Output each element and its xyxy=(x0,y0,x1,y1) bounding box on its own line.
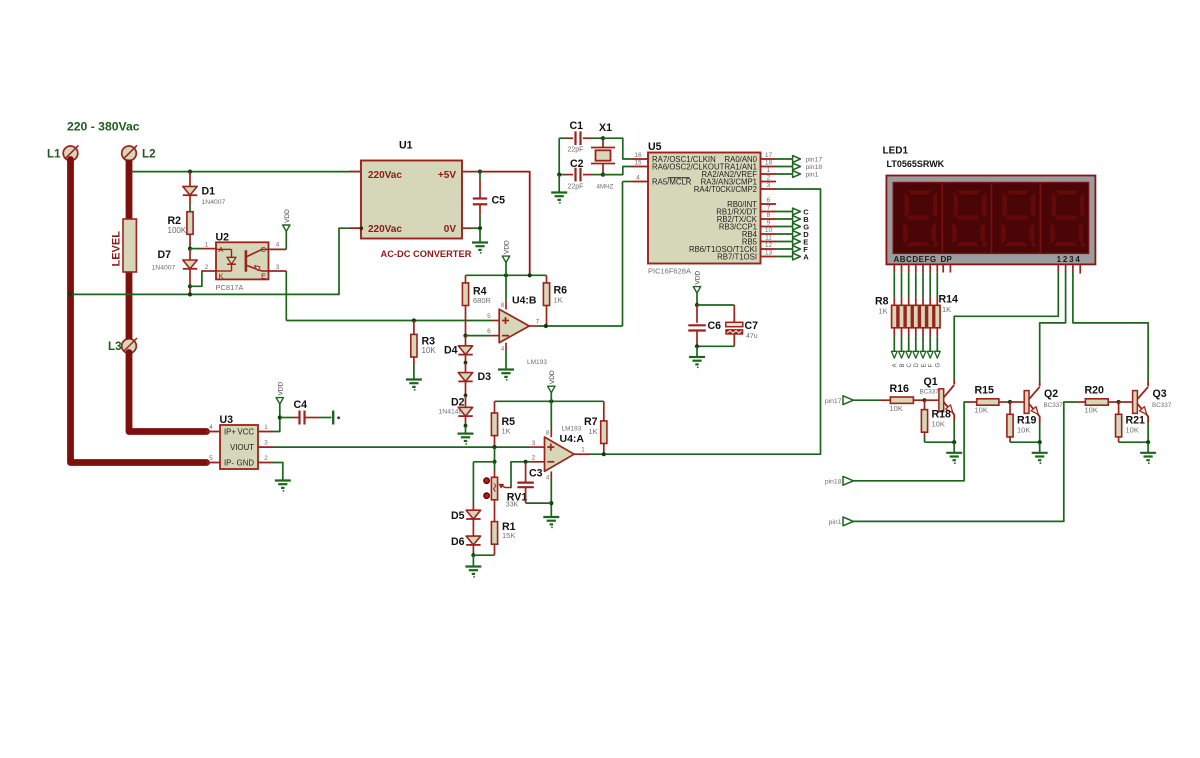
diode D1 xyxy=(189,172,191,187)
ground Q2 xyxy=(1039,442,1041,453)
converter U1 xyxy=(361,161,462,239)
node D1 top xyxy=(188,170,192,174)
svg-text:4: 4 xyxy=(209,424,213,431)
U5 pin 1 RA2/AN2/VREF xyxy=(761,173,777,175)
U2 internal phototransistor xyxy=(245,250,248,272)
svg-text:LM193: LM193 xyxy=(527,359,547,366)
svg-text:VDD: VDD xyxy=(695,270,702,284)
ground Q1 xyxy=(953,442,955,453)
wire pin17 to R16 xyxy=(853,399,880,401)
thick wire L1 bus xyxy=(71,160,207,463)
svg-text:pin18: pin18 xyxy=(806,164,823,171)
svg-text:LM193: LM193 xyxy=(562,425,582,432)
wire U4:B output to MCLR xyxy=(529,325,538,327)
svg-text:U2: U2 xyxy=(216,232,230,244)
capacitor C7 electrolytic xyxy=(733,305,735,322)
svg-text:A: A xyxy=(803,252,809,261)
svg-text:2: 2 xyxy=(767,175,771,182)
U5 pin 16 RA7/OSC1/CLKIN xyxy=(632,158,648,160)
wire pin18 to R15 xyxy=(853,402,968,481)
svg-text:RA4/T0CKI/CMP2: RA4/T0CKI/CMP2 xyxy=(694,185,757,194)
svg-text:F: F xyxy=(929,364,935,368)
tag segment E xyxy=(776,241,793,243)
svg-text:AC-DC CONVERTER: AC-DC CONVERTER xyxy=(381,249,472,259)
wire minus input to wiper xyxy=(511,462,529,488)
node Q2 emitter xyxy=(1038,440,1042,444)
node X1 top xyxy=(601,136,605,140)
LED segment pin G wire xyxy=(936,265,938,273)
svg-text:D5: D5 xyxy=(451,510,465,522)
svg-text:1K: 1K xyxy=(502,427,511,436)
LED segment pin D wire xyxy=(915,265,917,273)
svg-text:10K: 10K xyxy=(1085,405,1098,414)
terminal L1 xyxy=(63,146,78,161)
svg-text:pin1: pin1 xyxy=(806,172,819,179)
svg-text:4: 4 xyxy=(276,242,280,249)
wire +5V feed to VDD rail xyxy=(480,172,530,276)
node C6 bottom xyxy=(695,344,699,348)
node D6 R1 xyxy=(471,553,475,557)
svg-text:12: 12 xyxy=(765,242,773,249)
svg-text:K: K xyxy=(219,271,224,280)
svg-text:22pF: 22pF xyxy=(568,146,584,153)
resistor network R8-R14 xyxy=(891,305,941,329)
svg-text:+5V: +5V xyxy=(438,170,456,181)
svg-text:L1: L1 xyxy=(47,148,61,161)
svg-text:B: B xyxy=(900,363,906,367)
svg-text:220Vac: 220Vac xyxy=(368,170,402,181)
svg-text:7: 7 xyxy=(536,319,540,326)
svg-text:GND: GND xyxy=(237,459,255,468)
tag segment B xyxy=(776,218,793,220)
power VDD U2 xyxy=(283,225,290,231)
tag pin17 xyxy=(776,158,793,160)
svg-text:C3: C3 xyxy=(529,467,543,479)
svg-text:BC337: BC337 xyxy=(920,389,940,396)
U5 pin 4 RA5/MCLR xyxy=(632,181,648,183)
U5 pin 7 RB1/RX/DT xyxy=(761,211,777,213)
segment tag F xyxy=(929,328,931,337)
svg-text:10K: 10K xyxy=(975,405,988,414)
node +5V C5 xyxy=(478,170,482,174)
svg-text:10K: 10K xyxy=(890,404,903,413)
node R7 output xyxy=(602,452,606,456)
U4:A pin4 power xyxy=(550,471,552,479)
svg-text:E: E xyxy=(921,363,927,367)
ground C1 C2 xyxy=(558,175,560,193)
segment tag A xyxy=(893,328,895,337)
resistor R19 xyxy=(1009,402,1011,414)
U1 pin stubs xyxy=(349,171,361,173)
U4:B pin4 power xyxy=(505,343,507,352)
wire U5 pin3 to comparator output xyxy=(776,189,821,454)
tag segment G xyxy=(776,226,793,228)
RV1 wiper arrow xyxy=(505,487,511,489)
segment tag G xyxy=(936,328,938,337)
svg-text:5: 5 xyxy=(209,455,213,462)
ground D6 xyxy=(472,555,474,566)
svg-text:U5: U5 xyxy=(648,141,662,153)
svg-text:680R: 680R xyxy=(473,296,492,305)
svg-text:D7: D7 xyxy=(158,249,172,261)
segment tag B xyxy=(901,328,903,337)
U5 pin 2 RA3/AN3/CMP1 xyxy=(761,181,777,183)
wire to U5 pin15 xyxy=(603,167,632,175)
svg-text:10K: 10K xyxy=(1017,425,1030,434)
svg-text:LED1: LED1 xyxy=(883,145,909,156)
svg-text:33K: 33K xyxy=(506,501,519,508)
node D7 K xyxy=(188,284,192,288)
LED segment pin E wire xyxy=(922,265,924,273)
wire U3 VCC xyxy=(258,431,273,433)
svg-text:11: 11 xyxy=(765,235,772,242)
wire to U5 pin16 xyxy=(603,138,632,159)
U5 pin 3 RA4/T0CKI/CMP2 xyxy=(761,188,777,190)
wire +5V output xyxy=(462,171,480,173)
svg-text:220Vac: 220Vac xyxy=(368,224,402,235)
U5 pin 12 RB6/T1OSO/T1CKI xyxy=(761,248,777,250)
resistor R6 xyxy=(546,275,548,283)
U5 pin 13 RB7/T1OSI xyxy=(761,256,777,258)
resistor R15 xyxy=(968,401,977,403)
wire R1 to node xyxy=(473,554,494,556)
wire U2 pin2 to D7 xyxy=(190,271,202,286)
svg-text:L3: L3 xyxy=(108,340,122,353)
node pin4 C3 gnd xyxy=(549,501,553,505)
svg-text:1: 1 xyxy=(767,167,771,174)
svg-text:C2: C2 xyxy=(570,158,584,170)
svg-text:1N4007: 1N4007 xyxy=(202,199,226,206)
level sensor LEVEL xyxy=(123,219,136,272)
svg-text:C1: C1 xyxy=(570,120,584,132)
svg-text:LT0565SRWK: LT0565SRWK xyxy=(887,159,945,169)
display digits xyxy=(903,190,939,247)
wire R21 to Q3 emitter xyxy=(1119,441,1149,443)
resistor R21 xyxy=(1118,402,1120,414)
svg-text:X1: X1 xyxy=(599,122,612,134)
svg-text:47u: 47u xyxy=(746,333,758,340)
U3 pin stubs left xyxy=(207,431,221,433)
node rail 5V feed xyxy=(528,273,532,277)
node divider xyxy=(492,460,496,464)
terminal C4 end xyxy=(332,411,334,425)
diode D6 xyxy=(466,536,480,545)
svg-text:100K: 100K xyxy=(168,226,187,235)
svg-text:8: 8 xyxy=(767,212,771,219)
node Q1 emitter xyxy=(952,440,956,444)
ground C5 xyxy=(472,241,488,243)
svg-text:9: 9 xyxy=(767,220,771,227)
wire R18 to Q1 emitter xyxy=(925,441,955,443)
svg-text:220 - 380Vac: 220 - 380Vac xyxy=(67,120,140,134)
power VDD U3 xyxy=(276,398,283,404)
svg-text:U1: U1 xyxy=(399,140,413,152)
svg-text:1K: 1K xyxy=(942,305,951,314)
svg-text:LEVEL: LEVEL xyxy=(111,231,123,267)
svg-text:5: 5 xyxy=(487,313,491,320)
svg-text:A: A xyxy=(893,363,899,367)
wire R19 to Q2 emitter xyxy=(1010,441,1040,443)
tag segment A xyxy=(776,256,793,258)
svg-text:15K: 15K xyxy=(502,531,515,540)
resistor R5 xyxy=(494,401,496,413)
svg-text:BC337: BC337 xyxy=(1152,402,1172,409)
capacitor C6 xyxy=(696,305,698,323)
svg-text:L2: L2 xyxy=(142,148,156,161)
svg-text:D4: D4 xyxy=(444,344,458,356)
svg-text:R14: R14 xyxy=(939,294,959,306)
svg-text:1: 1 xyxy=(264,424,268,431)
diode D4 xyxy=(465,336,467,346)
LED segment pin C wire xyxy=(908,265,910,273)
svg-text:C: C xyxy=(907,363,913,368)
op-amp U4:B xyxy=(499,309,529,343)
tag pin18 xyxy=(776,166,793,168)
segment tag D xyxy=(915,328,917,337)
LED segment pin B wire xyxy=(901,265,903,273)
tag segment F xyxy=(776,248,793,250)
svg-text:1234: 1234 xyxy=(1057,255,1082,264)
svg-text:ABCDEFG: ABCDEFG xyxy=(894,255,937,264)
svg-text:1N4007: 1N4007 xyxy=(152,264,176,271)
terminal L3 xyxy=(122,339,137,354)
svg-text:pin17: pin17 xyxy=(825,398,842,405)
svg-text:VDD: VDD xyxy=(504,240,511,254)
wire pin1 to R20 xyxy=(853,402,1075,521)
svg-text:0V: 0V xyxy=(444,224,457,235)
svg-text:18: 18 xyxy=(765,160,773,167)
node X1 bottom xyxy=(601,173,605,177)
svg-text:10: 10 xyxy=(765,227,773,234)
wire neutral riser to U1 xyxy=(339,228,361,294)
U5 pin 18 RA1/AN1 xyxy=(761,166,777,168)
svg-text:6: 6 xyxy=(487,328,491,335)
node D7 neutral xyxy=(188,292,192,296)
node Q3 emitter xyxy=(1146,440,1150,444)
svg-text:R16: R16 xyxy=(890,383,910,395)
power VDD U4:A xyxy=(548,386,555,392)
wire VDD rail U4:A xyxy=(495,400,604,402)
thick wire L2 bus mid xyxy=(126,271,133,340)
capacitor C3 xyxy=(525,462,527,482)
node Q1 base xyxy=(922,398,926,402)
potentiometer RV1 xyxy=(494,462,496,470)
wire neutral bottom horizontal xyxy=(71,293,340,295)
wire Q2 emitter down xyxy=(1039,423,1041,442)
svg-text:6: 6 xyxy=(767,197,771,204)
svg-text:3: 3 xyxy=(532,440,536,447)
resistor R18 xyxy=(924,400,926,409)
wire L2 to U1 220Vac top xyxy=(131,171,361,173)
terminal L2 xyxy=(122,146,137,161)
svg-text:4: 4 xyxy=(636,175,640,182)
svg-text:E: E xyxy=(261,271,266,280)
tag pin1 xyxy=(843,517,853,526)
U5 MCLR overline xyxy=(668,177,690,179)
svg-text:D2: D2 xyxy=(451,396,465,408)
svg-text:2: 2 xyxy=(532,455,536,462)
microcontroller U5 xyxy=(648,153,761,264)
LED digit pin 1 wire xyxy=(1057,265,1059,273)
resistor R16 xyxy=(880,399,890,401)
svg-text:pin1: pin1 xyxy=(829,519,842,526)
svg-text:U4:A: U4:A xyxy=(560,433,585,445)
svg-text:10K: 10K xyxy=(932,420,945,429)
svg-text:Q2: Q2 xyxy=(1044,388,1058,400)
tag segment C xyxy=(776,211,793,213)
svg-text:PC817A: PC817A xyxy=(216,283,244,292)
segment tag C xyxy=(908,328,910,337)
resistor R1 xyxy=(494,500,496,522)
svg-text:DP: DP xyxy=(941,255,953,264)
tag pin1 xyxy=(776,173,793,175)
U2 internal led xyxy=(216,248,232,250)
node R2 D7 U2.1 xyxy=(188,247,192,251)
svg-text:13: 13 xyxy=(765,250,773,257)
wire R5 node down xyxy=(494,447,496,462)
resistor R7 xyxy=(603,401,605,421)
wire U2 pin4 to VDD xyxy=(269,248,287,250)
diode D3 xyxy=(465,363,467,373)
opto-coupler U2 xyxy=(216,242,269,279)
node Q2 base xyxy=(1008,400,1012,404)
ground D2 xyxy=(465,426,467,434)
node left rail xyxy=(557,173,561,177)
sensor U3 xyxy=(220,425,258,469)
svg-text:17: 17 xyxy=(765,152,773,159)
svg-text:3: 3 xyxy=(767,182,771,189)
U4:B minus input wire xyxy=(463,334,467,338)
wire U4:A output xyxy=(574,453,590,455)
power VDD C6 xyxy=(693,287,700,293)
svg-text:VDD: VDD xyxy=(284,209,291,223)
ground C6 xyxy=(696,346,698,357)
tag pin18 xyxy=(843,476,853,485)
U5 pin 6 RB0/INT xyxy=(761,203,777,205)
ground R3 xyxy=(406,378,422,380)
svg-text:Q3: Q3 xyxy=(1153,388,1167,400)
wire C6 C7 bottom rail xyxy=(697,345,734,347)
LED DP pins xyxy=(942,265,944,273)
node VCC C4 xyxy=(278,415,282,419)
resistor R3 xyxy=(412,318,416,322)
node C6 top xyxy=(695,303,699,307)
svg-text:pin17: pin17 xyxy=(806,157,823,164)
transistor Q3 xyxy=(1133,391,1138,414)
svg-text:R20: R20 xyxy=(1085,384,1105,396)
svg-text:1: 1 xyxy=(205,242,209,249)
svg-text:PIC16F628A: PIC16F628A xyxy=(648,267,691,276)
wire 0V to ground xyxy=(462,227,472,229)
LED segment pin A wire xyxy=(893,265,895,273)
svg-text:U4:B: U4:B xyxy=(512,295,537,307)
tag pin17 xyxy=(843,396,853,405)
svg-text:RA5/MCLR: RA5/MCLR xyxy=(652,178,692,187)
diode D7 xyxy=(189,249,191,260)
node 0V C5 xyxy=(478,226,482,230)
resistor R20 xyxy=(1075,401,1085,403)
U5 pin 10 RB4 xyxy=(761,233,777,235)
svg-text:2: 2 xyxy=(205,264,209,271)
svg-text:15: 15 xyxy=(634,160,642,167)
power VDD rail xyxy=(502,256,509,262)
svg-text:1: 1 xyxy=(581,447,585,454)
svg-text:10K: 10K xyxy=(422,346,437,355)
svg-text:1K: 1K xyxy=(554,296,563,305)
thick wire L2 bus upper xyxy=(126,160,133,221)
wire C6 C7 top rail xyxy=(697,304,734,306)
wire U3 GND xyxy=(258,462,273,464)
capacitor C5 xyxy=(479,172,481,180)
svg-text:G: G xyxy=(936,363,942,368)
display digit separators xyxy=(941,183,943,254)
svg-text:D1: D1 xyxy=(202,186,216,198)
wire C3 bottom to ground node xyxy=(526,502,552,504)
tag segment D xyxy=(776,233,793,235)
resistor R2 xyxy=(187,212,193,235)
svg-text:3: 3 xyxy=(276,264,280,271)
svg-text:16: 16 xyxy=(634,152,642,159)
svg-text:IP-: IP- xyxy=(224,459,234,468)
U5 pin 11 RB5 xyxy=(761,241,777,243)
LED segment pin F wire xyxy=(929,265,931,273)
svg-text:VDD: VDD xyxy=(278,381,285,395)
node rail pin8 xyxy=(504,273,508,277)
svg-text:VCC: VCC xyxy=(238,428,255,437)
ground U4:B xyxy=(498,368,514,370)
svg-text:C7: C7 xyxy=(745,320,759,332)
U5 pin 17 RA0/AN0 xyxy=(761,158,777,160)
LED digit pin 4 stub xyxy=(1079,265,1081,274)
svg-text:VIOUT: VIOUT xyxy=(230,443,254,452)
thick wire L2 bus lower xyxy=(129,353,207,432)
U4:B pin8 power xyxy=(505,275,507,301)
svg-text:1N4148: 1N4148 xyxy=(439,409,463,416)
svg-text:10K: 10K xyxy=(1126,425,1139,434)
svg-text:4MHZ: 4MHZ xyxy=(597,183,614,190)
resistor R4 xyxy=(465,275,467,283)
LED digit pin 2 wire xyxy=(1065,265,1067,273)
wire C1 C2 left rail xyxy=(558,138,560,174)
svg-text:7: 7 xyxy=(767,205,771,212)
svg-text:D6: D6 xyxy=(451,536,465,548)
segment tag E xyxy=(922,328,924,337)
node rail U4:A pin8 xyxy=(549,399,553,403)
wire divider to D5 branch xyxy=(473,461,494,463)
U4:A pin8 power xyxy=(550,401,552,429)
svg-text:R15: R15 xyxy=(975,384,995,396)
LED digit pin 3 wire xyxy=(1072,265,1074,273)
transistor Q1 xyxy=(939,389,944,412)
svg-text:C4: C4 xyxy=(294,399,308,411)
diode D5 xyxy=(472,462,474,504)
ground U3 xyxy=(275,479,291,481)
svg-text:C5: C5 xyxy=(492,194,506,206)
svg-text:22pF: 22pF xyxy=(568,183,584,190)
node L1 neutral xyxy=(68,292,72,296)
svg-text:1K: 1K xyxy=(589,427,598,436)
svg-text:D3: D3 xyxy=(478,371,492,383)
transistor Q2 xyxy=(1024,391,1029,414)
svg-text:1K: 1K xyxy=(879,307,888,316)
node R5 VIOUT xyxy=(492,445,496,449)
svg-text:pin18: pin18 xyxy=(825,479,842,486)
svg-text:3: 3 xyxy=(264,440,268,447)
svg-text:C6: C6 xyxy=(708,320,722,332)
ground Q3 xyxy=(1147,442,1149,453)
svg-text:Q1: Q1 xyxy=(924,376,938,388)
U5 pin 15 RA6/OSC2/CLKOUT xyxy=(632,166,648,168)
